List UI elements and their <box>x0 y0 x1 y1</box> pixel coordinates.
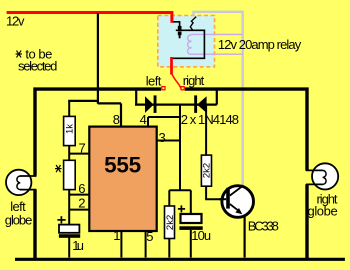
svg-text:right: right <box>183 73 205 88</box>
svg-text:12v: 12v <box>6 14 25 29</box>
svg-text:8: 8 <box>113 112 120 127</box>
svg-text:555: 555 <box>104 152 141 177</box>
svg-text:4: 4 <box>140 112 147 127</box>
svg-text:2 x 1N4148: 2 x 1N4148 <box>181 112 239 127</box>
svg-text:2k2: 2k2 <box>165 215 176 230</box>
svg-text:selected: selected <box>18 59 57 74</box>
svg-text:BC338: BC338 <box>248 219 279 234</box>
svg-text:3: 3 <box>159 130 166 145</box>
svg-text:globe: globe <box>5 212 33 227</box>
svg-text:12v 20amp relay: 12v 20amp relay <box>218 37 302 52</box>
svg-text:1: 1 <box>113 228 120 243</box>
svg-text:globe: globe <box>308 204 338 219</box>
svg-text:7: 7 <box>79 141 86 156</box>
svg-text:2: 2 <box>78 196 85 211</box>
svg-text:10u: 10u <box>191 228 211 243</box>
svg-text:5: 5 <box>146 229 153 244</box>
svg-text:left: left <box>146 74 162 89</box>
svg-text:1u: 1u <box>72 238 84 253</box>
svg-text:2k2: 2k2 <box>202 163 213 178</box>
svg-text:1k: 1k <box>64 124 75 134</box>
svg-text:6: 6 <box>78 181 85 196</box>
